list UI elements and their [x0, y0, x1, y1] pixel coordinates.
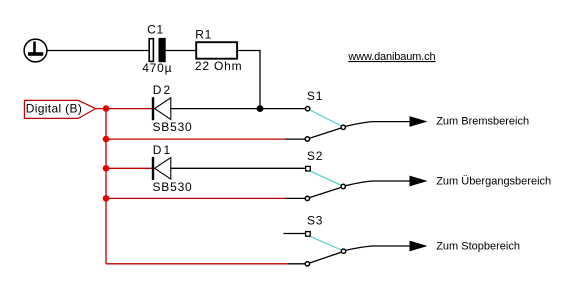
- svg-text:S3: S3: [307, 213, 323, 227]
- svg-text:R1: R1: [195, 28, 212, 42]
- svg-text:D1: D1: [153, 143, 173, 157]
- svg-text:D2: D2: [153, 83, 173, 97]
- svg-text:S1: S1: [307, 89, 323, 103]
- svg-text:Zum Übergangsbereich: Zum Übergangsbereich: [436, 176, 551, 188]
- svg-text:Digital (B): Digital (B): [26, 102, 83, 116]
- svg-text:SB530: SB530: [153, 180, 193, 194]
- svg-text:C1: C1: [147, 23, 164, 37]
- svg-text:Zum Stopbereich: Zum Stopbereich: [436, 240, 520, 252]
- svg-text:Zum Bremsbereich: Zum Bremsbereich: [436, 116, 529, 128]
- svg-text:S2: S2: [307, 149, 323, 163]
- svg-text:SB530: SB530: [153, 120, 193, 134]
- svg-text:22 Ohm: 22 Ohm: [195, 59, 243, 73]
- svg-text:470µ: 470µ: [142, 61, 172, 75]
- svg-text:www.danibaum.ch: www.danibaum.ch: [347, 51, 435, 63]
